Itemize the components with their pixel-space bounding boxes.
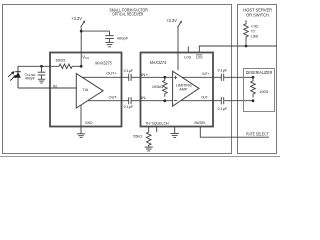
plus input mark [174,76,178,80]
svg-text:OUT-: OUT- [109,96,119,100]
supply +3.3V left arrow [81,22,85,27]
svg-text:4.7kΩ: 4.7kΩ [251,25,259,29]
svg-text:55kΩ: 55kΩ [133,135,142,139]
svg-text:400pF: 400pF [25,76,35,80]
op-amp U1 MAX3275 box [50,53,122,127]
svg-text:100kΩ: 100kΩ [152,85,164,89]
node deser - [252,99,255,102]
pin TH wire [148,127,150,131]
wire VCC pin MAX3274 [177,27,179,70]
svg-text:OPTICAL RECEIVER: OPTICAL RECEIVER [112,12,143,17]
host server box [238,5,277,154]
photodiode D1 [17,66,19,71]
svg-text:IN: IN [53,85,57,89]
ground MAX3275 [77,133,85,135]
resistor pullup 4.7k-10k [244,20,249,44]
svg-text:AMP: AMP [179,88,188,92]
deserializer box [244,69,275,112]
svg-text:100Ω: 100Ω [259,90,268,94]
svg-text:+3.3V: +3.3V [71,16,82,21]
svg-text:0.1μF: 0.1μF [124,69,134,73]
svg-text:0.1μF: 0.1μF [218,107,228,111]
svg-text:OUT+: OUT+ [202,72,210,76]
node VCC rail dot [80,30,83,33]
ground for CFILTER [38,78,45,80]
op-amp limiting amp triangle [173,71,199,106]
node 100k bottom [163,99,166,102]
pin LOSB wire to host [199,46,277,52]
ground for TH resistor [145,146,153,148]
capacitor C2 0.1uF bottom coupling [128,97,130,104]
svg-text:MAX3274: MAX3274 [150,60,167,65]
wire cap to deserializer + [224,76,253,78]
bottom page rule [0,156,280,158]
wire cap to deserializer - [224,100,253,102]
svg-text:VCC: VCC [82,55,89,61]
ground for 400pF cap [105,41,113,43]
svg-text:MAX3275: MAX3275 [95,60,112,65]
node LOSB pullup junction [245,45,248,48]
op-amp TIA triangle [76,74,103,108]
svg-text:+3.3V: +3.3V [166,18,177,23]
wire OUT+ MAX3274 to cap [182,76,221,78]
capacitor 400pF [109,31,111,36]
wire IN+ inside MAX3274 [140,76,173,78]
wire OUT+ from TIA [82,76,128,78]
svg-text:IN+: IN+ [141,73,149,77]
svg-text:LOS: LOS [196,56,203,60]
node deser + [252,76,255,79]
minus input mark [174,100,177,102]
resistor 100 ohm termination [251,77,256,97]
svg-text:OUT+: OUT+ [106,71,117,75]
light arrows into photodiode [8,73,12,77]
capacitor C4 0.1uF out- [220,97,222,104]
svg-text:DESERIALIZER: DESERIALIZER [246,70,273,75]
svg-text:GND: GND [85,121,93,125]
wire OUT- MAX3274 to cap [181,100,221,102]
wire GND pin MAX3275 [80,105,82,134]
svg-text:BWSEL: BWSEL [194,121,206,125]
pin LOS stub [187,46,189,52]
ground MAX3274 [170,132,179,134]
svg-text:LOS: LOS [184,56,191,60]
wire IN- inside MAX3274 [140,100,173,102]
pin BWSEL wire to rate select [200,127,269,137]
pin SQUELCH stub [156,127,158,132]
wire resistor to VCC node [72,65,81,67]
wire +3.3V down to VCC node [80,28,82,67]
svg-text:OR SWITCH: OR SWITCH [246,12,269,17]
wire GND pin MAX3274 [174,127,176,134]
wire VCC rail to bypass cap [81,30,109,32]
svg-text:0.1μF: 0.1μF [124,105,134,109]
svg-text:OUT-: OUT- [201,96,209,100]
wire photodiode cathode net (top) [18,65,59,67]
svg-text:TH: TH [145,122,150,126]
main module border [3,5,232,154]
node 100k top [163,76,166,79]
svg-text:0.1μF: 0.1μF [218,69,228,73]
svg-text:400pF: 400pF [117,36,129,41]
svg-text:TIA: TIA [82,88,88,92]
wire photodiode anode to IN pin [18,87,77,89]
svg-text:IN-: IN- [141,96,148,100]
svg-text:600Ω: 600Ω [56,58,66,63]
svg-text:10kΩ: 10kΩ [251,34,258,38]
node feedback/VCC [80,65,83,68]
wire OUT- from TIA [88,100,129,102]
node cathode/cap junction [40,65,43,68]
svg-text:TO: TO [251,29,255,33]
capacitor CFILTER 400pF [41,66,43,72]
op-amp U2 MAX3274 box [141,53,214,127]
supply +3.3V right arrow [177,22,181,27]
svg-text:SQUELCH: SQUELCH [151,122,169,126]
svg-text:RATE SELECT: RATE SELECT [246,132,269,137]
